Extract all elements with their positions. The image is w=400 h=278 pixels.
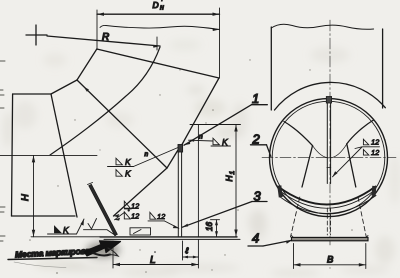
svg-text:L: L [150, 255, 156, 266]
joint arrowhead [84, 87, 89, 92]
curved liner outer edge heavy [278, 187, 376, 205]
svg-text:K: K [125, 157, 131, 167]
horizontal centerline [262, 157, 396, 159]
svg-text:4: 4 [252, 231, 259, 246]
elbow inner edge segment 2 [51, 80, 77, 94]
svg-text:H: H [224, 175, 234, 182]
seam leader to strut with arrow [114, 168, 168, 217]
cylinder-cone intersection lip right [347, 120, 374, 144]
dimension H [32, 155, 35, 236]
base extension line [31, 236, 100, 238]
inlet plane horizontal line [0, 154, 97, 156]
weld symbol stack Δ12 Δ12 with leader [115, 201, 141, 220]
svg-text:ℓ: ℓ [185, 246, 189, 256]
scan margin ticks [0, 61, 5, 241]
base flange plate side view [100, 237, 240, 240]
label H1 rotated [224, 171, 236, 182]
dimension L [113, 240, 198, 269]
mean line arc of bend [50, 47, 160, 155]
small plate on base [130, 228, 151, 235]
vertical centerline [329, 20, 331, 245]
label L [150, 251, 156, 266]
elbow outer right edge [182, 78, 219, 145]
pipe side wall right [382, 29, 384, 108]
vertical extension line right [197, 125, 199, 237]
weld symbol Δ12 single with leader [148, 212, 179, 228]
svg-text:K: K [125, 169, 131, 179]
svg-text:В: В [327, 255, 334, 266]
elbow left edge [12, 94, 13, 216]
pipe side wall left [270, 27, 272, 110]
elbow inner edge segment 1 [77, 49, 97, 80]
splitter plate hidden below [327, 208, 330, 235]
H1 top extension line [190, 124, 241, 126]
callout 3 [182, 189, 267, 228]
dimension line Dн with arrows [97, 13, 220, 16]
elbow bottom short edge [12, 215, 76, 217]
shoulder arc [275, 82, 386, 110]
dimension B [294, 244, 366, 269]
svg-text:12: 12 [131, 202, 140, 211]
flange ring outer circle [270, 99, 388, 217]
svg-text:n: n [145, 151, 149, 158]
marking place text [15, 245, 96, 259]
dimension 16 [211, 220, 220, 237]
weld symbol ΔK right with leader [189, 137, 231, 147]
svg-text:K: K [222, 137, 228, 147]
svg-text:D: D [153, 0, 159, 10]
svg-text:12: 12 [157, 212, 166, 221]
column cap box [178, 145, 183, 153]
weld symbol ΔK bottom-left with leader [48, 219, 85, 235]
elbow inner edge segment 3 [13, 93, 51, 95]
support column double wall [178, 152, 181, 236]
intersection dip curve [313, 144, 347, 158]
svg-text:1: 1 [252, 91, 259, 106]
strut brace (hatched bar) [88, 183, 118, 236]
miter joint line upper [77, 80, 167, 168]
marking place big black arrow [84, 241, 121, 257]
elbow outlet plane edge [97, 49, 219, 78]
svg-text:12: 12 [371, 148, 380, 157]
transition wall left [302, 146, 313, 187]
svg-text:12: 12 [131, 212, 140, 221]
radius line R with arrowhead and tick [47, 36, 160, 50]
weld symbol stack ΔK ΔK upper [108, 148, 179, 179]
svg-text:H: H [20, 194, 31, 201]
transition wall right [347, 144, 356, 187]
curved liner inner edge [280, 196, 377, 214]
weld symbol stack Δ12 Δ12 right view with leader [333, 138, 381, 177]
bend center cross [26, 25, 47, 45]
transition wall right hidden [358, 197, 366, 237]
wavy R dimension line with arrow [100, 25, 220, 31]
callout 4 [248, 231, 292, 247]
dimension l small [183, 241, 199, 260]
svg-text:K: K [63, 225, 69, 235]
liner end caps [277, 185, 283, 197]
center splitter plate [326, 97, 331, 184]
marking place underline [8, 258, 97, 260]
svg-text:R: R [102, 32, 109, 43]
bottom flange bar [292, 236, 369, 241]
svg-text:1: 1 [229, 171, 236, 175]
svg-text:12: 12 [371, 138, 380, 147]
flange ring inner circle [272, 101, 385, 214]
faint pen slip curve [14, 262, 66, 268]
dimension Dн extension lines [97, 8, 220, 78]
svg-text:16: 16 [205, 222, 214, 231]
transition wall left hidden [291, 197, 300, 237]
callout 1 [184, 91, 267, 145]
knot edge to column cap [167, 150, 178, 169]
cylinder-cone intersection lip left [284, 122, 313, 146]
dimension H1 [234, 125, 237, 237]
surface finish V symbol with leader [84, 219, 116, 236]
miter joint line lower [51, 94, 77, 217]
callout 2 [251, 132, 271, 157]
label Dн [153, 0, 165, 12]
break line wavy top [271, 24, 373, 29]
